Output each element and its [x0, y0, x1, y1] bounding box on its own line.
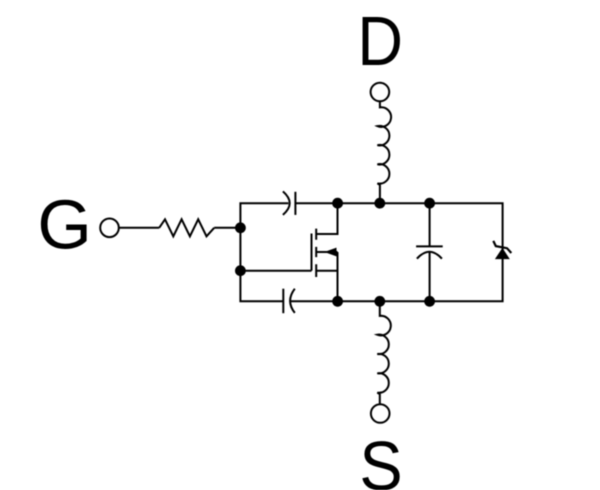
svg-text:G: G — [37, 185, 91, 263]
svg-text:S: S — [359, 427, 402, 490]
svg-text:D: D — [357, 2, 403, 80]
